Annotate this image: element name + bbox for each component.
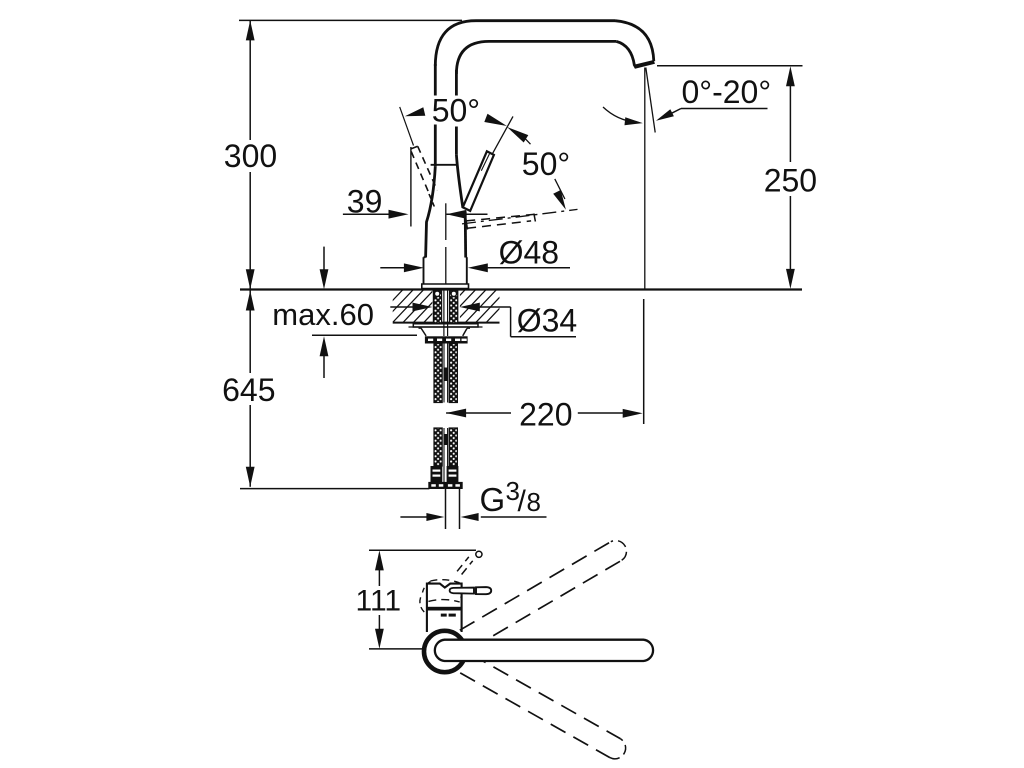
label O34	[517, 303, 577, 339]
arrowhead 300 bottom	[246, 269, 255, 289]
dashed-lever axis line	[400, 107, 414, 146]
dimension line O34	[390, 307, 576, 337]
reference line 645 bottom	[240, 488, 429, 490]
threaded shank right (through deck)	[450, 291, 458, 324]
arrowhead 220 left	[446, 409, 466, 418]
tilted stream line (20 deg)	[646, 68, 655, 133]
svg-text:250: 250	[764, 162, 817, 198]
plan view dashed lever diagonal	[457, 557, 473, 575]
arrowhead 111 bottom	[375, 629, 384, 649]
label 0-20 deg	[682, 74, 772, 110]
arrowhead max60 bottom	[320, 336, 329, 378]
label 220	[519, 396, 572, 432]
dimension max.60 extension	[312, 334, 417, 336]
svg-text:Ø48: Ø48	[499, 234, 559, 270]
label O48	[499, 234, 559, 270]
washer plate	[409, 324, 483, 327]
arrowhead 0-20	[656, 109, 674, 121]
arrowhead 39 right	[446, 210, 466, 219]
arrowhead O48 left	[404, 263, 424, 272]
dimension line 220	[446, 412, 623, 414]
hose crimp sleeve right	[447, 466, 459, 482]
spout riser pipe right edge	[455, 70, 458, 155]
arc arrowhead upper (50 deg pair)	[484, 114, 507, 126]
hose centerline upper	[444, 344, 448, 403]
extension line 220 right	[643, 299, 645, 424]
countertop line	[240, 288, 802, 290]
dimension line 111	[378, 570, 380, 629]
countertop bottom line	[393, 322, 500, 324]
countertop hatching	[360, 288, 519, 324]
o-ring seals at shank top	[435, 291, 457, 296]
spout riser pipe left edge	[434, 64, 437, 166]
arrowhead 250 bottom	[786, 269, 795, 289]
spout tube (bent outlet pipe)	[435, 21, 654, 74]
arrowhead max60 top	[320, 247, 329, 290]
arrowhead 645 top	[246, 291, 255, 311]
plan view spout hub ring	[424, 631, 465, 672]
arrowhead 645 bottom	[246, 467, 255, 487]
base cylinder (Ø48)	[424, 257, 467, 284]
plan view dashed swing arc	[420, 580, 462, 614]
arrowhead O34 left	[413, 303, 433, 312]
arrowhead 39 left	[389, 210, 409, 219]
extension line top (spout height reference)	[239, 19, 462, 21]
label 300	[224, 138, 277, 174]
svg-text:50°: 50°	[432, 92, 480, 128]
leader line 50 deg (second)	[555, 179, 565, 199]
arrowhead 220 right	[623, 409, 643, 418]
arc tail line (50 deg pair)	[524, 137, 531, 144]
reference line 250 top	[657, 65, 803, 67]
label 645	[222, 372, 275, 408]
svg-text:39: 39	[347, 183, 383, 219]
dimension line G38	[400, 516, 546, 518]
dimension line 645	[249, 291, 251, 487]
svg-text:300: 300	[224, 138, 277, 174]
svg-text:645: 645	[222, 372, 275, 408]
hose centerline lower	[444, 428, 448, 488]
dimension line 250	[789, 86, 791, 269]
faucet body outline	[426, 155, 466, 258]
hose end nut right	[444, 482, 462, 489]
arrowhead swivel arc	[625, 117, 643, 125]
arc arrowhead left 50 deg	[405, 107, 425, 116]
cone spacer	[419, 328, 471, 336]
dimension line O48	[380, 267, 570, 269]
extension line 111 top	[369, 549, 476, 551]
svg-text:Ø34: Ø34	[517, 303, 577, 339]
plan view cartridge body	[427, 584, 462, 632]
G3/8 connector tails	[446, 489, 460, 529]
label G 3/8	[480, 476, 541, 518]
plan view spout tube dashed (swung down)	[460, 654, 625, 759]
dimension line 39	[343, 213, 488, 215]
arrowhead G38 left	[426, 513, 444, 521]
arrowhead 111 top	[375, 550, 384, 570]
braided hose upper left	[434, 344, 442, 403]
label 50 deg first	[432, 92, 480, 128]
braided hose lower right	[449, 428, 457, 466]
svg-text:8: 8	[527, 487, 541, 517]
label 50 deg second	[522, 146, 570, 182]
lever axis line (thin)	[463, 116, 513, 207]
lever handle (dashed alternate position)	[411, 146, 437, 206]
svg-text:max.60: max.60	[272, 297, 374, 332]
braided hose lower left	[434, 428, 442, 466]
swivel arc at outlet	[603, 107, 639, 123]
hose crimp sleeve left	[431, 466, 443, 482]
label 39	[347, 183, 383, 219]
label 111	[355, 585, 401, 618]
arrowhead G38 right	[461, 513, 479, 521]
leader 0-20	[669, 109, 768, 115]
plan view spout tube dashed (swung up)	[460, 541, 627, 649]
extension line 111 bottom	[369, 648, 425, 650]
label 250	[764, 162, 817, 198]
svg-text:111: 111	[355, 585, 401, 618]
base flange plate	[422, 284, 469, 289]
stream centerline from outlet	[644, 68, 646, 290]
lever extension line (vertical, 39 ref)	[410, 147, 412, 227]
plan view body band	[426, 607, 462, 611]
hose lines inside shank	[444, 291, 448, 337]
arc arrowhead lower (50 deg pair)	[507, 127, 528, 143]
label max.60	[272, 297, 374, 332]
hose end nut left	[428, 482, 444, 489]
plan view lever rod	[450, 587, 492, 594]
open lever axis (dash-dot)	[462, 209, 578, 224]
svg-text:/: /	[518, 485, 527, 518]
svg-text:0°-20°: 0°-20°	[682, 74, 772, 110]
lever handle (solid, closed position)	[463, 151, 494, 211]
plan view dashed lever ball	[476, 551, 482, 557]
faucet centerline	[445, 203, 447, 284]
svg-text:G: G	[480, 481, 506, 518]
svg-text:50°: 50°	[522, 146, 570, 182]
arrowhead 250 top	[786, 66, 795, 86]
arrowhead 300 top	[246, 20, 255, 40]
svg-text:220: 220	[519, 396, 572, 432]
arrowhead O34 right	[460, 303, 480, 312]
arrowhead 50 deg second	[553, 190, 566, 210]
plan view body marks	[441, 614, 456, 617]
arrowhead O48 right	[468, 263, 488, 272]
braided hose upper right	[449, 344, 457, 403]
threaded shank left (through deck)	[433, 291, 441, 324]
open lever dashed outline	[466, 214, 535, 230]
dimension line 300	[249, 20, 251, 289]
mounting nut	[425, 336, 468, 343]
plan view spout tube (solid)	[435, 640, 653, 661]
